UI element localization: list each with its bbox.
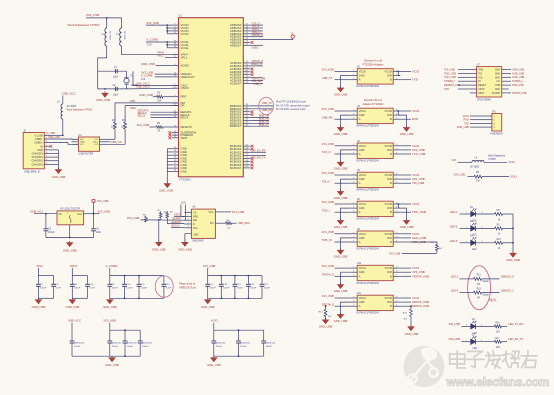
LED D1 (450, 207, 495, 223)
svg-text:Pin 30 RXD, receiver input: Pin 30 RXD, receiver input (276, 108, 306, 111)
node VPLL (157, 54, 171, 58)
svg-text:1: 1 (353, 144, 354, 146)
node BDB_N4 (250, 114, 269, 118)
svg-text:3V3_USB: 3V3_USB (322, 230, 334, 234)
svg-text:4: 4 (396, 78, 397, 80)
svg-text:RXD: RXD (412, 117, 418, 121)
svg-text:USB_VCC: USB_VCC (62, 91, 77, 95)
svg-text:VCCA: VCCA (359, 173, 366, 177)
svg-text:3V3_USB: 3V3_USB (98, 210, 110, 214)
capacitor bank USB_VCC/3V3_USB bulk (68, 319, 153, 358)
svg-text:SCL: SCL (193, 227, 198, 230)
svg-text:BDB_N7: BDB_N7 (259, 122, 270, 126)
svg-text:GND_USB: GND_USB (405, 332, 419, 336)
svg-text:TMB: TMB (495, 85, 500, 87)
svg-text:USB_OSC2: USB_OSC2 (136, 85, 150, 89)
svg-text:VCCB: VCCB (384, 266, 391, 270)
svg-text:5: 5 (396, 114, 397, 116)
svg-text:3V3_USB: 3V3_USB (322, 68, 334, 72)
svg-text:1K: 1K (158, 131, 161, 133)
svg-text:1K: 1K (498, 248, 501, 250)
svg-text:VCC: VCC (208, 211, 213, 214)
node TNB_USB right (509, 84, 524, 87)
svg-text:GND_USB: GND_USB (207, 363, 221, 367)
svg-text:3V3_USB: 3V3_USB (103, 319, 115, 323)
svg-text:3V3_USB: 3V3_USB (97, 199, 109, 203)
node GND_USB header (457, 126, 485, 129)
svg-text:LED: LED (472, 249, 477, 251)
svg-text:TDO: TDO (444, 88, 449, 91)
inductor L4 (452, 157, 515, 168)
svg-text:VPLL: VPLL (181, 56, 188, 60)
svg-text:GND_USB: GND_USB (334, 196, 348, 200)
svg-text:LED_TX_RX: LED_TX_RX (508, 322, 523, 326)
svg-text:TDO_USB: TDO_USB (412, 210, 426, 214)
svg-text:1: 1 (353, 232, 354, 234)
svg-text:2: 2 (353, 74, 354, 76)
svg-text:GND_USB: GND_USB (105, 363, 119, 367)
svg-text:OSCO: OSCO (181, 86, 190, 90)
svg-text:2: 2 (353, 207, 354, 209)
resistor R15 option (451, 288, 515, 299)
inductor L1 (102, 18, 111, 46)
svg-text:VREGOUT: VREGOUT (181, 75, 195, 79)
node TDO_USB (444, 72, 470, 75)
svg-text:2: 2 (353, 114, 354, 116)
svg-text:DP: DP (181, 104, 185, 108)
svg-text:4: 4 (396, 118, 397, 120)
svg-text:BDK6C04: BDK6C04 (266, 343, 277, 345)
svg-text:B: B (390, 152, 392, 156)
svg-text:USB_RX: USB_RX (322, 115, 333, 119)
ground 3V3_USB bank (201, 298, 215, 309)
svg-text:1K: 1K (498, 219, 501, 221)
svg-text:TDO_USB: TDO_USB (444, 72, 456, 75)
watermark text dianzifashaoyou (450, 351, 537, 368)
svg-text:10R: 10R (111, 127, 116, 129)
wire L1 to crystal rail (98, 46, 107, 71)
node TX0_SW (250, 79, 263, 83)
svg-text:GND_USB: GND_USB (159, 189, 173, 193)
svg-text:GND: GND (359, 236, 365, 240)
IC U1 FT2232 body (179, 14, 244, 182)
svg-text:3V3_USB: 3V3_USB (449, 337, 461, 341)
resistor R8 bias (454, 172, 517, 183)
node PWREN no-connect (169, 134, 172, 137)
svg-text:USBIOO_0: USBIOO_0 (501, 275, 515, 279)
resistor R7 4k7 (158, 210, 168, 220)
wire EEPROM left gnd (158, 219, 160, 242)
svg-text:DI: DI (478, 81, 481, 83)
crystal Y1 12MHz (124, 71, 139, 89)
capacitor C1 10pF (113, 66, 119, 79)
svg-text:R17: R17 (495, 338, 500, 340)
capacitor bank VPHY (C9 C10) (70, 264, 96, 299)
svg-text:USB_VCC: USB_VCC (68, 319, 81, 323)
svg-text:3V3_USB: 3V3_USB (322, 107, 334, 111)
node USB_I (250, 45, 263, 49)
svg-text:U11: U11 (357, 292, 362, 295)
svg-text:SCK: SCK (181, 202, 186, 205)
svg-text:www.elecfans.com: www.elecfans.com (446, 375, 550, 389)
svg-text:GND_USB: GND_USB (512, 72, 524, 75)
svg-text:LED-2: LED-2 (450, 225, 458, 229)
svg-text:GND_USB: GND_USB (32, 305, 46, 309)
node BCBUS5 no-connect (251, 160, 254, 163)
resistor R13 4k7 SRST left (319, 305, 333, 319)
node ID no-connect (50, 145, 53, 148)
node EECS EEPROM (174, 214, 184, 217)
svg-text:100nF: 100nF (141, 288, 148, 290)
node 3V3_USB LDO out (84, 210, 110, 215)
svg-text:BDK6C04: BDK6C04 (127, 343, 138, 345)
svg-text:5: 5 (396, 148, 397, 150)
svg-text:SN74LVC1T45DCKR: SN74LVC1T45DCKR (356, 282, 379, 285)
svg-text:SI7-6802: SI7-6802 (470, 166, 480, 168)
ground LED rail (506, 251, 520, 262)
node GND_USB right (509, 76, 525, 79)
LED D2 (450, 221, 495, 237)
wire crystal left rail (97, 71, 99, 89)
svg-text:100nF: 100nF (264, 288, 271, 290)
node LED_RX_TX (250, 155, 266, 159)
svg-text:VCCA: VCCA (359, 144, 366, 148)
svg-text:3: 3 (353, 211, 354, 213)
svg-text:GND_USB: GND_USB (334, 92, 348, 96)
svg-text:4: 4 (396, 275, 397, 277)
svg-text:GND: GND (37, 148, 43, 152)
LED D5 (449, 334, 495, 350)
node VCIO header (463, 115, 485, 118)
node TDI_O (250, 24, 263, 28)
svg-text:BDBUS7: BDBUS7 (230, 124, 242, 128)
svg-text:USB+: USB+ (130, 107, 137, 110)
node BCBUS1 no-connect (251, 148, 254, 151)
svg-text:GND_USB: GND_USB (334, 319, 348, 323)
svg-text:3: 3 (353, 275, 354, 277)
svg-text:USB_VW: USB_VW (111, 141, 122, 144)
svg-text:V_CORE: V_CORE (146, 38, 158, 42)
wire OSCI (133, 71, 179, 85)
svg-text:10pF: 10pF (113, 93, 119, 96)
svg-text:VSUP: VSUP (478, 89, 485, 91)
svg-text:1: 1 (353, 173, 354, 175)
svg-text:4: 4 (396, 211, 397, 213)
svg-text:GND_USB: GND_USB (334, 255, 348, 259)
LED D4 (449, 319, 495, 335)
svg-text:3: 3 (353, 182, 354, 184)
svg-text:USB-: USB- (130, 100, 136, 103)
svg-text:JTAG-20MM: JTAG-20MM (477, 99, 491, 102)
svg-text:6: 6 (396, 232, 397, 234)
svg-text:2: 2 (353, 148, 354, 150)
svg-text:DIR: DIR (387, 113, 392, 117)
svg-text:1: 1 (353, 70, 354, 72)
svg-text:100nF: 100nF (112, 346, 119, 348)
svg-text:SRST#_USB: SRST#_USB (412, 304, 429, 308)
svg-text:GND: GND (495, 70, 500, 72)
svg-text:Direction A to B: Direction A to B (364, 59, 382, 63)
ground V_CORE bank (103, 298, 117, 309)
svg-text:VCCA: VCCA (359, 202, 366, 206)
svg-text:VCIO: VCIO (412, 109, 420, 113)
svg-text:TCK: TCK (478, 77, 483, 79)
svg-text:3V3_USB: 3V3_USB (232, 210, 244, 214)
wire USB shield bus (50, 150, 59, 169)
svg-text:GND_USB: GND_USB (96, 98, 110, 102)
svg-text:5: 5 (396, 301, 397, 303)
ground EEPROM (178, 241, 192, 252)
svg-text:100nF: 100nF (266, 346, 273, 348)
svg-text:3: 3 (353, 305, 354, 307)
node USB_VW (107, 141, 123, 144)
svg-text:TEST: TEST (181, 136, 189, 140)
svg-text:B: B (390, 304, 392, 308)
svg-text:TXD: TXD (464, 122, 469, 125)
svg-text:3.3uF: 3.3uF (166, 288, 172, 290)
node GND_USB AGND (141, 62, 171, 66)
node TDO (444, 88, 470, 91)
svg-text:3V3_USB: 3V3_USB (389, 251, 401, 255)
svg-text:GND_USB: GND_USB (66, 305, 80, 309)
svg-text:VREGOUT pin: VREGOUT pin (179, 286, 197, 290)
svg-text:GND: GND (359, 206, 365, 210)
svg-text:LED-1: LED-1 (450, 210, 458, 214)
resistor R2 10R (111, 120, 117, 129)
svg-text:R15: R15 (477, 288, 482, 290)
node RESET#_USB (444, 84, 470, 87)
svg-text:RESET: RESET (478, 85, 486, 87)
svg-text:DIR: DIR (387, 206, 392, 210)
svg-text:VPLL: VPLL (157, 54, 164, 58)
IC U7 JTAG connector (470, 63, 509, 101)
svg-text:U1: U1 (179, 14, 183, 18)
svg-text:SI7-6802: SI7-6802 (108, 31, 110, 41)
wire L2 to VPHY pin (122, 46, 179, 55)
node BCBUS4 no-connect (251, 157, 254, 160)
svg-text:6: 6 (396, 144, 397, 146)
svg-text:GND: GND (181, 169, 187, 173)
svg-text:6: 6 (396, 173, 397, 175)
node BDB_N6 (250, 120, 269, 124)
svg-text:VCCB: VCCB (384, 70, 391, 74)
svg-text:GND: GND (495, 89, 500, 91)
node TMS_O (250, 30, 263, 34)
svg-text:4: 4 (396, 240, 397, 242)
svg-text:Adapter-FT2232H: Adapter-FT2232H (363, 102, 384, 106)
svg-text:USBD-: USBD- (35, 137, 43, 141)
node V_CORE VREGOUT (141, 73, 172, 81)
node TDI_USB (444, 68, 470, 71)
svg-text:100nF: 100nF (112, 288, 119, 290)
svg-text:GND: GND (359, 177, 365, 181)
svg-text:4.7uF: 4.7uF (89, 288, 95, 290)
ground VCIO bank (207, 356, 221, 367)
IC U3 level shifter RX (363, 98, 384, 106)
svg-text:GND_USB: GND_USB (141, 62, 155, 66)
node TCK_O (250, 21, 263, 25)
svg-text:VCCB: VCCB (384, 296, 391, 300)
svg-text:GND_USB: GND_USB (334, 289, 348, 293)
svg-text:LED_RX_TX: LED_RX_TX (508, 337, 523, 341)
node USB_TX (250, 101, 273, 106)
svg-text:EECS: EECS (181, 116, 189, 120)
svg-text:NC: NC (497, 81, 501, 83)
svg-text:VPHY: VPHY (70, 264, 78, 268)
svg-text:SN74LVC1T45DCKR: SN74LVC1T45DCKR (356, 85, 379, 88)
svg-text:BDK6C04: BDK6C04 (112, 343, 123, 345)
svg-text:TDI_O: TDI_O (322, 179, 330, 183)
annotation TXD RXD note (276, 101, 310, 112)
node EEPRE (173, 217, 182, 220)
svg-text:LED-1: LED-1 (451, 275, 459, 279)
svg-text:100nF: 100nF (74, 346, 81, 348)
node EEDATA EEPROM (167, 221, 184, 224)
svg-text:1: 1 (353, 296, 354, 298)
ground VPHY bank (66, 298, 80, 309)
svg-text:3V3_USB: 3V3_USB (322, 171, 334, 175)
resistor R9 1K (495, 225, 513, 236)
node USB_VCC LDO (30, 210, 57, 215)
svg-text:100nF: 100nF (237, 288, 244, 290)
svg-text:100nF: 100nF (240, 346, 247, 348)
svg-text:R12: R12 (477, 275, 482, 277)
svg-text:6: 6 (396, 296, 397, 298)
svg-text:A: A (359, 152, 361, 156)
node TDO_I (250, 27, 263, 31)
svg-text:Work Datasheet 747567: Work Datasheet 747567 (68, 23, 101, 27)
node TEST_O (250, 59, 263, 63)
svg-text:100nF: 100nF (216, 346, 223, 348)
node BCBUS0 no-connect (251, 145, 254, 148)
svg-text:TMS: TMS (478, 70, 483, 72)
svg-text:TRST#_O: TRST#_O (322, 272, 334, 276)
svg-text:5: 5 (396, 178, 397, 180)
svg-text:REF: REF (181, 95, 187, 99)
svg-text:CHASSIS: CHASSIS (32, 155, 43, 159)
svg-text:USB_MINI_B: USB_MINI_B (24, 169, 40, 173)
svg-text:WE: WE (193, 219, 197, 222)
svg-text:TRST#_USB: TRST#_USB (412, 274, 429, 278)
IC U9 level shifter TMS (350, 228, 400, 251)
node EECS (138, 114, 172, 118)
svg-text:3: 3 (353, 118, 354, 120)
svg-text:A: A (359, 274, 361, 278)
node GND_USB REF (139, 93, 156, 97)
annotation place close note (179, 281, 197, 289)
svg-text:GND_USB: GND_USB (319, 324, 333, 328)
svg-text:FT2232H-Adapter: FT2232H-Adapter (363, 62, 384, 66)
node SUSPEND no-connect (169, 131, 172, 134)
svg-text:2: 2 (353, 271, 354, 273)
svg-text:4: 4 (396, 152, 397, 154)
node ACBUS4 no-connect (251, 73, 254, 76)
resistor R10 1K (495, 239, 513, 250)
svg-text:VCCA: VCCA (359, 109, 366, 113)
node BDB_N5 (250, 117, 269, 121)
svg-text:3V3_USB: 3V3_USB (322, 200, 334, 204)
capacitor C6 10uF (91, 214, 102, 238)
svg-text:VCCB: VCCB (384, 144, 391, 148)
ground bulk bank (105, 356, 119, 367)
IC U4B level shifter TCK (350, 140, 400, 163)
svg-text:AGND: AGND (181, 64, 189, 68)
svg-text:USB-FILTER: USB-FILTER (78, 152, 93, 156)
IC U8 M93C46 (184, 206, 222, 243)
node RXD header (464, 119, 485, 122)
svg-text:3V3_USB: 3V3_USB (322, 264, 334, 268)
node BDBUS3 no-connect (251, 113, 254, 116)
ground U1 (159, 182, 173, 193)
svg-text:B: B (390, 274, 392, 278)
node USB_VCC (62, 91, 77, 95)
svg-text:R16: R16 (495, 323, 500, 325)
svg-text:V_USB: V_USB (34, 133, 43, 137)
capacitor bank VPLL (C7 C8) (36, 264, 62, 299)
wire EEPROM gnd pin (185, 234, 192, 242)
svg-text:3V3_USB: 3V3_USB (86, 13, 99, 17)
svg-text:Pin 16 TXD, transmitter output: Pin 16 TXD, transmitter output (276, 104, 310, 107)
svg-text:4: 4 (396, 305, 397, 307)
inductor L3 (57, 96, 63, 136)
svg-text:PRE: PRE (193, 215, 198, 218)
svg-text:100nF: 100nF (40, 288, 47, 290)
node V_USB (47, 131, 64, 136)
svg-text:TXD: TXD (412, 78, 418, 82)
resistor R16 220 (494, 322, 523, 334)
svg-text:B: B (390, 210, 392, 214)
wire crystal bottom rail (98, 88, 127, 90)
svg-text:6: 6 (396, 109, 397, 111)
svg-text:GND: GND (359, 270, 365, 274)
svg-text:1: 1 (353, 267, 354, 269)
LED D3 (450, 236, 495, 252)
svg-text:GND_USB: GND_USB (201, 305, 215, 309)
svg-text:GND_USB: GND_USB (178, 247, 192, 251)
IC U11 level shifter SRST (350, 292, 400, 315)
node 3V3_USB VCCD (146, 21, 172, 34)
wire DP (125, 106, 178, 122)
svg-text:M93C46S: M93C46S (192, 240, 203, 243)
svg-text:BDK6C04: BDK6C04 (74, 343, 85, 345)
svg-text:5: 5 (396, 74, 397, 76)
svg-text:GND_USB: GND_USB (400, 225, 414, 229)
svg-text:1V9: 1V9 (147, 43, 152, 46)
svg-text:B: B (390, 78, 392, 82)
svg-text:SRST: SRST (478, 93, 485, 95)
svg-text:GND: GND (359, 148, 365, 152)
svg-text:TRST#_USB: TRST#_USB (512, 92, 527, 95)
svg-text:VCCA: VCCA (359, 266, 366, 270)
svg-text:USBIOO_1: USBIOO_1 (501, 288, 515, 292)
capacitor C5 100nF (44, 214, 56, 238)
svg-text:DIR: DIR (387, 74, 392, 78)
svg-text:4: 4 (396, 182, 397, 184)
node USB_OSC2 (136, 85, 150, 89)
capacitor bank V_CORE (C11-C13) (106, 264, 172, 299)
svg-text:6: 6 (396, 202, 397, 204)
svg-text:2: 2 (353, 236, 354, 238)
node BDBUS2 no-connect (251, 110, 254, 113)
node USB_OSC1 (136, 82, 150, 86)
wire filter out2 to R3 (107, 129, 126, 144)
svg-text:LED_D1_RX: LED_D1_RX (251, 149, 266, 153)
capacitor bank 3V3_USB (C17-C21) (203, 264, 271, 299)
annotation ellipse USB_TX/RX (259, 97, 274, 114)
svg-text:3V3_USB: 3V3_USB (322, 294, 334, 298)
svg-text:TMS(B)_I: TMS(B)_I (444, 80, 455, 83)
wire GND bus U1 (167, 149, 171, 184)
